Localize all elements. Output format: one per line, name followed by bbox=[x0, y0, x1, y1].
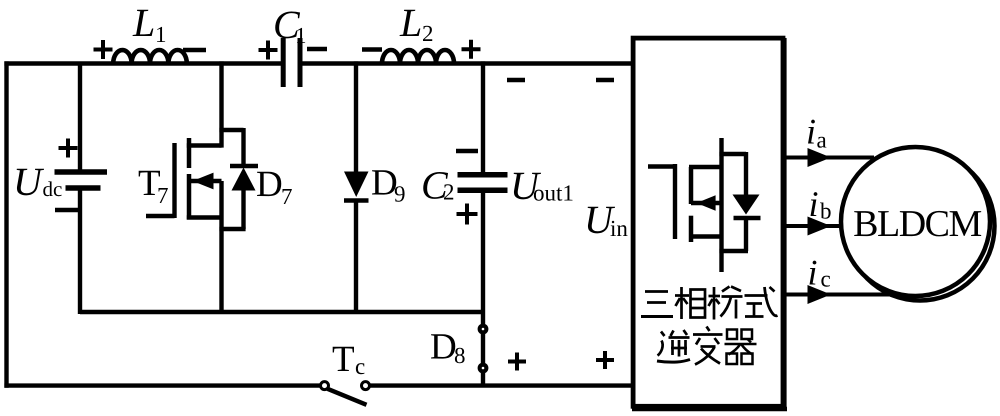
inverter MOSFET gate bar bbox=[673, 164, 677, 239]
transistor T7 body lead bbox=[189, 179, 222, 183]
inverter MOSFET source tail bbox=[719, 237, 723, 273]
plus sign L1 bbox=[94, 40, 113, 59]
svg-text:D: D bbox=[430, 327, 457, 368]
minus sign L2 bbox=[362, 47, 382, 51]
wire D7 bottom vertical bbox=[241, 190, 245, 229]
svg-text:2: 2 bbox=[443, 180, 455, 205]
svg-text:in: in bbox=[610, 216, 628, 241]
plus sign Udc bbox=[59, 139, 78, 158]
inverter diode bottom vertical bbox=[744, 220, 748, 251]
wire T7 source vertical bbox=[219, 181, 223, 314]
transistor T7 source lead bbox=[187, 215, 222, 219]
wire Udc top lead bbox=[78, 64, 82, 173]
svg-text:c: c bbox=[355, 354, 365, 379]
inverter MOSFET body lead bbox=[691, 201, 722, 205]
svg-text:i: i bbox=[809, 184, 819, 224]
arrow ic line bbox=[786, 293, 894, 297]
plus sign L2 bbox=[462, 40, 481, 59]
motor BLDCM circle bbox=[841, 147, 990, 296]
inverter MOSFET gate lead bbox=[648, 164, 677, 168]
inverter MOSFET drain-source vertical bbox=[719, 138, 723, 237]
wire C2 top lead bbox=[481, 61, 485, 172]
inverter diode cathode bar bbox=[734, 216, 761, 221]
wire Udc bottom lead bbox=[78, 189, 82, 314]
wire D9 bottom lead bbox=[354, 199, 358, 314]
svg-text:c: c bbox=[821, 267, 831, 292]
arrow ib line bbox=[786, 224, 841, 228]
arrow ic head bbox=[808, 285, 832, 304]
wire D7 bottom jog bbox=[219, 227, 245, 231]
inverter text char ni bbox=[657, 330, 690, 362]
junction dot D8 node lower bbox=[478, 363, 489, 374]
inverter box right thick edge bbox=[783, 38, 787, 409]
switch Tc blade bbox=[328, 389, 367, 405]
transistor T7 gate lead bbox=[146, 214, 175, 218]
svg-text:2: 2 bbox=[422, 21, 434, 46]
inverter diode triangle bbox=[733, 195, 760, 215]
svg-text:L: L bbox=[132, 0, 155, 45]
svg-text:a: a bbox=[817, 128, 827, 153]
wire bottom rail left of switch bbox=[4, 383, 319, 387]
diode D7 cathode bar bbox=[230, 164, 258, 169]
minus sign C2 bbox=[456, 149, 478, 153]
inverter MOSFET source lead bbox=[689, 234, 722, 238]
wire bottom rail right of switch bbox=[370, 383, 634, 387]
inverter text char xiang bbox=[675, 287, 705, 319]
svg-text:8: 8 bbox=[454, 343, 466, 368]
capacitor C1 plates bbox=[283, 38, 300, 87]
minus sign C1 bbox=[307, 47, 327, 51]
wire C2 bottom lead through D8 node bbox=[481, 193, 485, 386]
wire D7 top jog bbox=[219, 128, 243, 132]
inverter MOSFET source arrow bbox=[697, 195, 716, 211]
inverter text char qi bbox=[725, 330, 757, 365]
svg-text:1: 1 bbox=[295, 23, 307, 48]
transistor T7 source arrow bbox=[193, 173, 214, 190]
svg-text:L: L bbox=[399, 0, 422, 45]
transistor T7 channel bottom segment bbox=[187, 174, 192, 220]
inverter box bbox=[633, 38, 783, 406]
switch Tc right contact bbox=[362, 382, 370, 390]
diode D9 triangle bbox=[344, 172, 369, 198]
minus sign L1 bbox=[183, 48, 206, 52]
capacitor C2 plates bbox=[458, 175, 508, 190]
inductor L2 bbox=[382, 50, 454, 63]
inverter text char qiao bbox=[709, 287, 743, 320]
plus sign C2 bbox=[457, 204, 478, 225]
wire left vertical bbox=[4, 61, 8, 387]
inverter MOSFET channel bottom segment bbox=[689, 216, 694, 242]
diode D9 cathode bar bbox=[344, 198, 369, 203]
arrow ia head bbox=[808, 148, 832, 167]
svg-text:U: U bbox=[13, 159, 45, 204]
transistor T7 gate bar bbox=[172, 143, 176, 218]
svg-text:D: D bbox=[256, 164, 283, 205]
source Udc plates bbox=[55, 172, 108, 210]
svg-text:9: 9 bbox=[394, 182, 406, 207]
arrow ia line bbox=[786, 156, 874, 160]
wire D9 top lead bbox=[354, 61, 358, 172]
inverter text char bian bbox=[693, 327, 723, 365]
plus sign C1 bbox=[259, 41, 278, 60]
inverter MOSFET channel top segment bbox=[689, 167, 694, 204]
wire top rail left of C1 bbox=[4, 61, 281, 65]
inverter diode bottom jog bbox=[719, 249, 748, 253]
svg-text:T: T bbox=[332, 339, 355, 380]
svg-text:i: i bbox=[808, 253, 818, 293]
transistor T7 channel top segment bbox=[187, 138, 192, 168]
inverter diode top jog bbox=[719, 152, 746, 156]
inverter MOSFET drain lead bbox=[689, 165, 722, 169]
switch Tc left contact bbox=[321, 382, 329, 390]
wire top rail right of C1 bbox=[302, 61, 633, 65]
svg-text:out1: out1 bbox=[533, 181, 574, 206]
junction dot D8 node upper bbox=[478, 324, 489, 335]
svg-text:dc: dc bbox=[43, 177, 63, 201]
svg-text:1: 1 bbox=[155, 22, 167, 47]
transistor T7 drain lead bbox=[187, 143, 222, 147]
inductor L1 bbox=[113, 50, 187, 63]
arrow ib head bbox=[808, 217, 832, 236]
inverter diode top vertical bbox=[744, 152, 748, 195]
diode D7 triangle bbox=[232, 168, 256, 191]
inverter box bottom thick edge bbox=[632, 407, 787, 411]
wire middle rail bbox=[80, 310, 483, 314]
plus pair bottom before inverter bbox=[508, 351, 614, 371]
wire T7 drain vertical bbox=[219, 61, 223, 147]
inverter text char san bbox=[641, 292, 673, 317]
wire D7 top vertical bbox=[241, 128, 245, 166]
motor BLDCM shadow circle bbox=[846, 152, 995, 301]
minus pair before inverter bbox=[507, 78, 614, 82]
svg-text:b: b bbox=[820, 199, 832, 224]
inverter text char shi bbox=[745, 287, 778, 317]
svg-text:BLDCM: BLDCM bbox=[853, 203, 981, 245]
svg-text:i: i bbox=[806, 112, 816, 152]
svg-text:7: 7 bbox=[281, 184, 293, 209]
svg-text:7: 7 bbox=[157, 183, 169, 208]
